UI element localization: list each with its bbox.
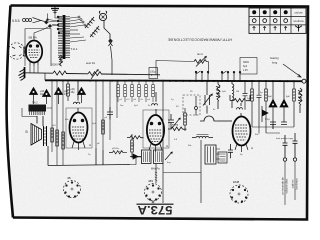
resistor R13 [184,108,187,131]
electrolytic C10 [280,81,288,122]
grid resistor R12 horizontal [127,136,144,139]
tube V1 electrodes [29,45,40,66]
right section column C8 [257,81,262,127]
svg-text:HTTP://WWW.RADIOCOLLECTION.BE: HTTP://WWW.RADIOCOLLECTION.BE [167,38,232,42]
transformer label T.H.1 [71,47,78,51]
voltage selector fan wires [70,16,86,42]
mains transformer T.H.1 core [63,15,66,59]
long wire left column 3 [62,81,64,166]
label swing [172,124,179,127]
column wires between V2 and V3 [96,81,117,150]
table row1 filled dots [252,10,288,14]
svg-text:489: 489 [148,179,153,183]
dropper resistor R2 diagonal [90,26,100,37]
long wire left column 2 [56,80,58,165]
detector diode arrows left of CFR [130,154,141,159]
resistor box R17 [218,152,227,163]
main HT bus wire [45,79,302,82]
oscillator coil marks inside shield [12,46,22,56]
tube base diagram EM8 [230,180,248,203]
antenna input funnel [33,18,47,23]
trimmer capacitor CT1 [203,81,212,114]
svg-text:EM8: EM8 [233,180,240,184]
misc tiny value labels [52,91,290,164]
smoothing capacitor C1 [30,88,38,105]
right section column R19 [265,81,268,133]
resistor R11 [102,120,105,134]
svg-text:1M: 1M [236,91,239,93]
svg-text:brug: brug [272,61,278,65]
table row3 aerial symbol [295,25,302,32]
table row1 caption [294,11,303,15]
svg-text:0.1µ: 0.1µ [265,119,270,121]
svg-text:6µ3: 6µ3 [243,65,248,68]
table row2 open dots [252,19,287,23]
svg-text:s.35: s.35 [243,69,248,72]
hatched lead to valve base [155,164,157,184]
wire hop arc [200,116,232,121]
tube V3 envelope [147,115,164,145]
terminal X2 caption rotated [290,178,298,190]
svg-text:0B PA: 0B PA [29,36,37,40]
resistor R22 horizontal [109,148,127,154]
switch contact set S2 above bus [195,71,209,81]
label MHz Fix [151,168,161,171]
svg-text:A: A [166,144,168,148]
wire V1 cathode to ground bus [30,65,38,73]
resistor R7 on column [51,128,54,142]
mains dropper box 100u2 [149,68,158,79]
svg-text:49µ: 49µ [71,91,76,94]
tube V1 label 0B PA [29,36,37,40]
long wire to tube base [200,140,202,203]
tube V1 octode envelope [26,41,42,63]
coil L3 above V3 [152,92,158,115]
right section column R18 [251,81,254,127]
return wire horizontal [163,172,201,174]
mains fuse F1 [104,21,113,76]
pilot lamp LP1 [99,11,106,21]
tube V3 electrodes [149,122,162,152]
bus junction dots [51,79,295,82]
svg-text:8µF: 8µF [286,96,290,98]
loudspeaker LS1 [31,116,47,146]
svg-text:573.A: 573.A [137,203,172,217]
svg-text:auto Fix: auto Fix [86,61,96,65]
switch contact set S3 above bus [221,71,241,81]
label tone [197,52,203,56]
tube V2 label [89,143,91,147]
svg-text:A: A [251,146,253,150]
arrow to HT terminal [283,64,301,77]
upper distribution bus wire [25,73,161,75]
tube V2 envelope [70,113,88,143]
IF tube V2 screen box [66,108,92,148]
cap C12 small [281,122,287,124]
tube base diagram 4B [64,176,81,198]
right section column R20 [293,81,296,127]
capacitor labels [40,90,69,96]
transformer T.H.1 secondary winding ticks [65,17,70,58]
svg-text:49µ: 49µ [40,93,45,96]
resistor R6 in bus (auto Fix) [88,72,101,76]
svg-text:300Ω: 300Ω [243,61,249,64]
resistor R10 vertical [67,81,70,102]
table row2 caption [293,19,304,23]
label 0.1u [265,119,270,121]
cap C11 small [270,122,276,129]
speaker terminal X1 [283,135,288,161]
pickup arrow right of TR [165,152,172,160]
transformer T.H.1 primary winding ticks [58,17,63,58]
tube V4 label [251,146,253,150]
label uF pair [88,117,108,156]
contact arrow on upper bus [91,70,98,80]
lower bus wire [48,146,141,166]
resistor R9 on column [62,132,65,149]
electrolytic C9 [269,81,277,129]
IF coil L4 vertical [232,81,234,108]
tube V3 label [166,144,168,148]
svg-text:swing: swing [172,124,179,127]
ground symbol main left [19,67,25,80]
svg-text:scott/ow: scott/ow [293,19,304,23]
resistor R4 below transformer [59,55,63,66]
coupling capacitor C5 [168,114,174,130]
svg-text:otc/ow: otc/ow [294,11,303,15]
anode diode D1 [262,106,268,122]
long wire left column 1 [51,80,53,152]
svg-text:µ25 Fix: µ25 Fix [112,148,120,150]
output transformer box TR [154,150,164,164]
svg-text:5.5.5.: 5.5.5. [12,19,21,23]
wire speaker to rectifier [22,108,52,117]
left long return wire [162,81,164,203]
tube V4 electrodes [235,125,248,152]
label 2000 Fix [51,63,62,67]
svg-text:B: B [26,130,28,134]
svg-text:2000 Fix: 2000 Fix [51,63,62,67]
output transformer box CFR [142,150,152,164]
resistor R23 vertical [131,134,134,158]
wire antenna switch to transformer primary [48,14,62,34]
smoothing capacitor C2 [55,88,63,105]
bank tiny labels [120,99,151,101]
tone potentiometer P1 [156,56,209,74]
HT terminal [302,79,306,83]
contact circle node [195,96,198,116]
resistor R15 horizontal [168,127,187,131]
coil L2 above V2 [73,81,79,112]
second output transformer T.H.2 [205,145,220,164]
dashed alignment box [183,95,200,115]
resistor R14 hatched vertical [216,81,220,109]
table row3 symbols [253,27,287,31]
speaker terminal X2 [293,133,298,161]
label haut parleur [276,137,294,140]
resistor R3 beside V1 [24,47,27,56]
svg-text:2M: 2M [131,145,134,147]
tube base D2 bottom pin [152,201,155,204]
bus link wire [44,73,46,80]
rectifier block T.4.2 [29,101,47,116]
dropper resistor R1 diagonal [85,17,95,28]
potentiometer P2 with arrow [172,118,180,128]
smoothing capacitor C3 [78,88,86,104]
capacitor C6 [228,144,233,158]
tube V2 electrodes [72,119,85,150]
terminal X1 caption rotated [280,177,288,195]
svg-text:tan A: tan A [197,52,203,56]
antenna terminal label 5.5.5 [12,19,21,23]
resistor R5 in bus (2000 Fix) [53,71,66,75]
grid resistor R16 above V4 [230,95,250,102]
trimmer table box [249,8,306,33]
choke coil L5 horizontal [192,135,213,138]
terminal wires down [285,161,295,205]
svg-text:T.H.1: T.H.1 [71,47,78,51]
note box 300 ohm [240,58,257,75]
svg-text:A: A [89,143,91,147]
pickup label and arrow [270,56,279,65]
shield can dashed circle around oscillator coil [8,43,24,59]
label 5HA [66,33,71,36]
tube V4 envelope [233,117,251,146]
watermark www.radiocollection.be rotated [167,38,232,42]
resistor R8 on column [56,130,59,146]
vertical resistor bank labels group1 [117,81,155,102]
svg-text:haut parleur supp: haut parleur supp [276,137,294,140]
capacitor C4 [107,107,113,120]
resistor R21 hatched near frame [298,88,302,113]
tube base diagram 489 [145,179,162,201]
svg-text:8µF: 8µF [268,96,272,98]
antenna coil L1 [23,19,32,22]
grid cap wire of V1 [25,26,51,66]
wave-change switch S1 contacts [45,14,58,28]
svg-text:T.4.2: T.4.2 [32,101,38,105]
speaker label B [26,130,28,134]
label 49u [71,88,76,94]
right section column C7 [243,81,248,110]
svg-text:hearing: hearing [270,56,279,60]
ground symbol top [51,6,59,14]
AF tube V3 screen box [143,110,169,148]
model name 573.A rotated [137,203,174,217]
svg-text:5HA: 5HA [66,33,71,36]
smoothing capacitor C2b [43,90,51,105]
output tube V4 coil above [237,103,243,117]
interconnect wires right bottom [252,127,294,134]
label auto Fix [86,61,96,65]
svg-text:4B: 4B [67,176,71,180]
